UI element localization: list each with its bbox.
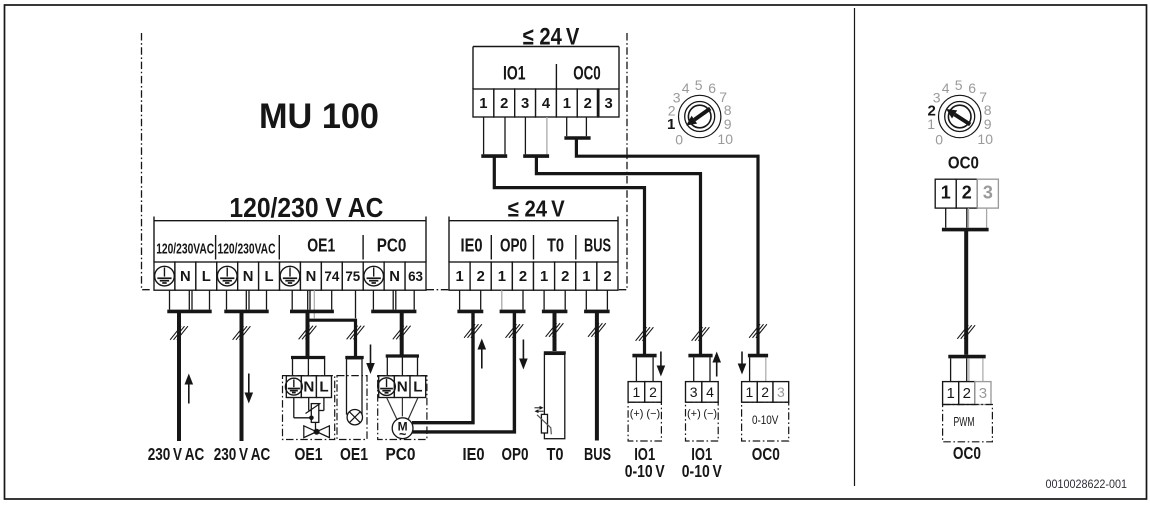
- svg-text:N: N: [389, 269, 400, 285]
- terminal cells IO1 0-10V 1: [628, 382, 661, 403]
- label IO1 connector 1: [634, 444, 655, 464]
- wire from IO1 1-2 to lower IO1 0-10V connector: [494, 156, 644, 354]
- stub from pin 75 to lamp branch: [355, 290, 357, 318]
- right panel OC0 terminal cells 1 2 3: [935, 179, 998, 208]
- svg-text:1: 1: [633, 384, 641, 400]
- svg-text:0: 0: [935, 131, 943, 147]
- svg-text:230 V AC: 230 V AC: [148, 444, 205, 464]
- svg-text:3: 3: [777, 384, 785, 400]
- right panel lower stubs: [951, 358, 983, 381]
- plug stub boxes BUS: [586, 290, 607, 309]
- plug stub boxes OE1: [292, 290, 332, 309]
- connector bar BUS: [584, 310, 610, 314]
- svg-text:4: 4: [542, 96, 551, 112]
- terminal row 120/230 section: PE N L PE N L PE N 74 75 PE N 63: [154, 262, 426, 290]
- svg-text:3: 3: [983, 183, 993, 203]
- svg-text:4: 4: [682, 80, 690, 96]
- label separators section B: [491, 235, 576, 260]
- plug stub boxes OP0: [502, 290, 523, 309]
- right panel connector bar bottom: [948, 355, 985, 359]
- junction dot OE1: [309, 416, 314, 421]
- svg-text:≤ 24 V: ≤ 24 V: [508, 196, 566, 222]
- label 230 V AC lead 2: [214, 444, 271, 464]
- svg-text:PC0: PC0: [386, 444, 416, 464]
- terminal cells OC0 0-10V: [742, 382, 789, 403]
- svg-text:N: N: [397, 379, 408, 396]
- svg-text:OC0: OC0: [948, 153, 979, 173]
- label 0-10V inside OC0 box: [752, 413, 779, 427]
- wire IE0 to pump motor: [412, 311, 482, 422]
- svg-text:2: 2: [963, 385, 971, 402]
- terminal block IO1/OC0 pins 1-4,1-3: [473, 89, 619, 117]
- svg-text:2: 2: [500, 96, 508, 112]
- svg-text:(+): (+): [630, 408, 644, 420]
- svg-text:N: N: [303, 379, 314, 396]
- svg-text:OC0: OC0: [953, 443, 981, 463]
- svg-text:L: L: [319, 379, 328, 396]
- svg-text:(−): (−): [703, 408, 717, 420]
- connector bar IO1 0-10V 1: [632, 354, 656, 358]
- IO1 0-10V connector 1 slashes: [636, 327, 654, 341]
- terminal cells IO1 0-10V 2: [686, 382, 719, 403]
- PC0 pump device terminals PE N L: [378, 376, 426, 398]
- OE1 lamp symbol: [347, 410, 362, 425]
- svg-text:~: ~: [399, 428, 406, 442]
- svg-text:2: 2: [519, 269, 527, 285]
- svg-text:L: L: [202, 269, 211, 285]
- svg-text:2: 2: [962, 183, 972, 203]
- svg-text:IE0: IE0: [461, 236, 483, 256]
- connector bar under OC0 pins 1-2: [564, 136, 590, 140]
- dash-dot box OC0 0-10V: [742, 402, 789, 441]
- svg-text:OP0: OP0: [502, 444, 529, 464]
- label <= 24 V (top): [523, 23, 580, 50]
- lamp device bar OE1: [345, 356, 363, 359]
- pump device bar PC0: [386, 354, 419, 357]
- connector bar under IO1 pins 3-4: [523, 154, 549, 158]
- svg-text:4: 4: [942, 80, 950, 96]
- svg-text:3: 3: [933, 89, 941, 105]
- svg-text:1: 1: [582, 269, 590, 285]
- svg-text:63: 63: [408, 269, 423, 284]
- svg-text:9: 9: [984, 116, 992, 132]
- cable T0: [546, 311, 564, 351]
- cable 230VAC lead 2: [233, 311, 251, 441]
- svg-text:1: 1: [498, 269, 506, 285]
- svg-text:6: 6: [968, 80, 976, 96]
- label 230 V AC lead 1: [148, 444, 205, 464]
- label PC0 (strip): [377, 236, 407, 256]
- cable PC0: [393, 311, 411, 356]
- plug stub boxes IE0: [460, 290, 481, 309]
- svg-text:3: 3: [690, 384, 698, 400]
- cable BUS: [588, 311, 606, 440]
- label T0 (strip): [547, 236, 564, 256]
- connector bar under IO1 pins 1-2: [481, 154, 507, 158]
- svg-text:10: 10: [717, 131, 733, 147]
- label 120/230VAC group 2: [218, 242, 276, 258]
- T0 sensor body rectangle: [544, 354, 564, 438]
- OE1 valve actuator wiring: [294, 398, 324, 418]
- svg-text:1: 1: [946, 385, 954, 402]
- label 120/230VAC group 1: [156, 242, 214, 258]
- svg-text:PC0: PC0: [377, 236, 407, 256]
- svg-text:1: 1: [540, 269, 548, 285]
- label PWM: [954, 415, 975, 429]
- svg-text:N: N: [306, 269, 317, 285]
- svg-text:L: L: [413, 379, 422, 396]
- plug stub boxes PC0: [373, 290, 414, 309]
- label OC0 (top block): [573, 63, 601, 85]
- svg-text:1: 1: [746, 384, 754, 400]
- rotary selector dial right, position 2: [927, 77, 993, 148]
- svg-text:1: 1: [667, 116, 675, 133]
- svg-text:1: 1: [941, 183, 951, 203]
- label OC0 right panel top: [948, 153, 979, 173]
- connector bar OP0: [500, 310, 526, 314]
- svg-text:0-10V: 0-10V: [752, 413, 779, 427]
- OE1 lamp stub rectangle: [347, 359, 363, 414]
- svg-text:5: 5: [695, 77, 703, 93]
- svg-text:L: L: [265, 269, 274, 285]
- connector bar OC0 0-10V: [748, 354, 768, 358]
- OE1 valve device terminals PE N L: [285, 376, 331, 398]
- plug stub boxes 230VAC lead 1: [170, 290, 210, 309]
- divider between IO1 and OC0 labels: [555, 64, 557, 89]
- svg-text:2: 2: [561, 269, 569, 285]
- svg-text:2: 2: [649, 384, 657, 400]
- PWM dash-dot box: [943, 405, 993, 442]
- label <= 24 V (strip): [508, 196, 566, 222]
- svg-text:230 V AC: 230 V AC: [214, 444, 271, 464]
- right panel lower cells 1 2 3: [943, 382, 991, 405]
- label OE1 lamp: [340, 444, 368, 464]
- svg-text:2: 2: [603, 269, 611, 285]
- svg-text:75: 75: [345, 269, 360, 284]
- right panel cable: [957, 230, 975, 355]
- connector bar 230VAC lead 2: [224, 310, 268, 314]
- svg-text:120/230 V AC: 120/230 V AC: [229, 192, 383, 223]
- stub lines IO1 0-10V 2: [694, 357, 710, 381]
- stub box under IO1 pins 3-4: [525, 117, 547, 154]
- svg-text:T0: T0: [547, 444, 564, 464]
- svg-text:(+): (+): [687, 408, 701, 420]
- label 0-10 V connector 1: [625, 461, 665, 481]
- label OC0 connector: [752, 444, 780, 464]
- thick divider between OC0 pin2 and pin3: [597, 89, 600, 117]
- sensor device bar T0: [544, 351, 566, 354]
- MU 100 enclosure dash-dot boundary right: [619, 33, 628, 290]
- arrow up IO1 0-10V 2: [712, 352, 721, 377]
- svg-text:10: 10: [977, 131, 993, 147]
- pump device stubs PC0: [387, 358, 417, 376]
- cable OE1 valve: [299, 311, 317, 356]
- T0 sensor double arrows: [535, 406, 544, 413]
- svg-text:BUS: BUS: [584, 444, 611, 464]
- document number 0010028622-001: [1046, 479, 1128, 491]
- label OP0 lead: [502, 444, 529, 464]
- arrow down 230VAC lead 2: [245, 374, 254, 404]
- svg-text:OP0: OP0: [500, 236, 527, 256]
- svg-text:OE1: OE1: [295, 444, 323, 464]
- stub box under IO1 pins 1-2: [484, 117, 505, 154]
- svg-text:0-10 V: 0-10 V: [625, 461, 665, 481]
- T0 thermistor symbol: [537, 414, 551, 434]
- label OP0 (strip): [500, 236, 527, 256]
- svg-text:1: 1: [455, 269, 463, 285]
- PC0 pump fan-in wires: [387, 398, 418, 420]
- rotary selector dial left, position 1: [667, 77, 733, 148]
- label IO1 (top block): [503, 63, 526, 85]
- IO1 0-10V connector 2 slashes: [692, 327, 710, 341]
- svg-text:BUS: BUS: [584, 236, 611, 256]
- svg-text:2: 2: [584, 96, 592, 112]
- MU 100 enclosure dash-dot boundary left: [142, 33, 153, 290]
- arrow down IO1 0-10V 1: [657, 352, 666, 377]
- svg-text:4: 4: [706, 384, 714, 400]
- svg-text:120/230VAC: 120/230VAC: [218, 242, 276, 258]
- connector bar IE0: [457, 310, 483, 314]
- label BUS (strip): [584, 236, 611, 256]
- svg-text:1: 1: [563, 96, 571, 112]
- bracket for 120/230 section: [154, 217, 426, 263]
- svg-text:N: N: [180, 269, 191, 285]
- terminal row 24V section pins 1 2 1 2 1 2 1 2: [449, 262, 618, 290]
- OE1 lamp dash-dot box: [337, 376, 367, 440]
- bracket for top 24V block: [473, 47, 619, 90]
- svg-text:0010028622-001: 0010028622-001: [1046, 479, 1128, 491]
- polarity labels IO1 connector 2: [687, 408, 717, 420]
- svg-text:N: N: [243, 269, 254, 285]
- label IE0 (strip): [461, 236, 483, 256]
- svg-text:3: 3: [604, 96, 612, 112]
- svg-text:120/230VAC: 120/230VAC: [156, 242, 214, 258]
- label OE1 valve: [295, 444, 323, 464]
- right panel stub boxes: [946, 208, 987, 228]
- svg-text:3: 3: [979, 385, 987, 402]
- svg-text:T0: T0: [547, 236, 564, 256]
- svg-text:IO1: IO1: [503, 63, 526, 85]
- stub lines OC0 0-10V: [750, 357, 766, 381]
- wire from IO1 3-4 to lower IO1 0-10V connector: [536, 156, 700, 354]
- svg-text:MU 100: MU 100: [259, 96, 379, 136]
- OC0 0-10V connector slashes: [749, 324, 767, 338]
- svg-text:74: 74: [324, 269, 339, 284]
- arrow down OP0: [519, 340, 528, 370]
- connector bar 230VAC lead 1: [167, 310, 211, 314]
- label IO1 connector 2: [691, 444, 712, 464]
- svg-text:3: 3: [521, 96, 529, 112]
- stub lines IO1 0-10V 1: [636, 357, 653, 381]
- connector bar PC0: [371, 310, 416, 314]
- svg-text:(−): (−): [646, 408, 660, 420]
- gray return wire OE1: [313, 290, 315, 318]
- arrow up 230VAC lead 1: [185, 374, 194, 404]
- arrow down OC0 0-10V: [738, 352, 747, 375]
- svg-text:PWM: PWM: [954, 415, 975, 429]
- branch wire to OE1 lamp: [309, 320, 364, 356]
- svg-text:9: 9: [724, 116, 732, 132]
- svg-text:0-10 V: 0-10 V: [682, 461, 722, 481]
- label 120/230 V AC: [229, 192, 383, 223]
- stub box under OC0 pins 1-2: [567, 117, 587, 136]
- arrow up IE0: [478, 339, 487, 369]
- module label MU 100: [259, 96, 379, 136]
- MU 100 enclosure dash-dot jog between sections: [427, 289, 449, 291]
- svg-text:2: 2: [761, 384, 769, 400]
- svg-text:OE1: OE1: [307, 236, 335, 256]
- svg-text:1: 1: [479, 96, 487, 112]
- plug stub boxes T0: [544, 290, 565, 309]
- label 0-10 V connector 2: [682, 461, 722, 481]
- svg-text:6: 6: [708, 80, 716, 96]
- OE1 mixing valve: [304, 422, 330, 437]
- svg-text:0: 0: [675, 131, 683, 147]
- wire from OC0 1-2 to lower OC0 connector: [576, 138, 758, 354]
- arrow down OE1 lamp: [366, 345, 375, 375]
- svg-text:OC0: OC0: [752, 444, 780, 464]
- label BUS lead: [584, 444, 611, 464]
- connector bar OE1: [290, 310, 334, 314]
- label OE1 (strip): [307, 236, 335, 256]
- PC0 pump dash-dot box: [378, 376, 427, 440]
- dash-dot box IO1 0-10V 1: [628, 402, 661, 441]
- plug stub boxes 230VAC lead 2: [227, 290, 267, 309]
- dash-dot box IO1 0-10V 2: [686, 402, 719, 441]
- svg-text:5: 5: [955, 77, 963, 93]
- connector bar T0: [542, 310, 568, 314]
- PC0 pump motor symbol: [392, 418, 413, 442]
- valve device stubs OE1: [293, 359, 325, 376]
- svg-text:IE0: IE0: [463, 444, 485, 464]
- valve device bar OE1: [291, 356, 325, 359]
- right panel connector bar top: [942, 228, 989, 232]
- wire OP0 to pump motor: [412, 311, 523, 432]
- cable 230VAC lead 1: [170, 311, 188, 441]
- label separators section A: [216, 235, 364, 260]
- panel separator line: [854, 8, 856, 486]
- connector bar IO1 0-10V 2: [688, 354, 712, 358]
- label PC0 pump: [386, 444, 416, 464]
- OE1 valve device dash-dot box: [283, 376, 335, 440]
- OE1 actuator: [306, 403, 321, 422]
- label T0 lead: [547, 444, 564, 464]
- bracket for 24V strip section: [449, 217, 618, 263]
- polarity labels IO1 connector 1: [630, 408, 660, 420]
- label IE0 lead: [463, 444, 485, 464]
- svg-text:OE1: OE1: [340, 444, 368, 464]
- svg-text:3: 3: [673, 89, 681, 105]
- svg-text:OC0: OC0: [573, 63, 601, 85]
- svg-text:2: 2: [477, 269, 485, 285]
- label OC0 right panel bottom: [953, 443, 981, 463]
